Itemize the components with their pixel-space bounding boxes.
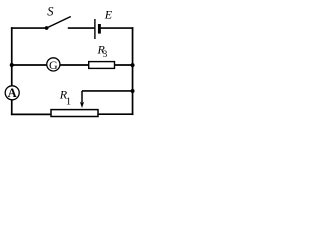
wire battery to top-right corner <box>101 27 134 29</box>
node C junction dot (right, middle branch) <box>131 63 135 67</box>
wire slider to node D <box>82 90 133 92</box>
rheostat slider arrowhead <box>80 102 84 109</box>
svg-text:1: 1 <box>66 97 71 108</box>
wire bottom left (corner to rheostat R1) <box>11 113 51 115</box>
wire switch to battery <box>68 27 95 29</box>
wire left vertical upper (top-left corner to node B) <box>11 27 13 65</box>
wire left vertical middle (node B to ammeter) <box>11 65 13 86</box>
node D junction dot (right vertical, slider tap) <box>131 89 135 93</box>
switch S blade (open) <box>47 17 71 29</box>
rheostat slider arrow shaft <box>81 91 83 105</box>
svg-text:A: A <box>8 86 17 100</box>
wire resistor R3 to node C <box>114 64 132 66</box>
wire galvanometer to resistor R3 <box>60 64 89 66</box>
wire right vertical <box>132 27 134 115</box>
svg-text:S: S <box>47 4 54 18</box>
galvanometer G circle <box>47 58 60 71</box>
svg-text:G: G <box>49 58 58 72</box>
wire top left (corner to switch S) <box>11 27 47 29</box>
svg-text:E: E <box>104 8 113 22</box>
node B junction dot (left, middle branch) <box>10 63 14 67</box>
resistor R3 box <box>89 62 115 69</box>
wire middle branch left (node B to galvanometer) <box>12 64 47 66</box>
wire left vertical lower (ammeter to bottom-left corner) <box>11 100 13 115</box>
ammeter A circle <box>5 86 19 100</box>
battery E short thick plate <box>98 24 101 34</box>
svg-text:3: 3 <box>103 49 108 59</box>
battery E long plate <box>94 19 96 39</box>
wire bottom right (rheostat R1 to bottom-right corner) <box>98 113 133 115</box>
switch S pivot dot <box>45 26 49 30</box>
rheostat R1 box <box>51 110 98 117</box>
